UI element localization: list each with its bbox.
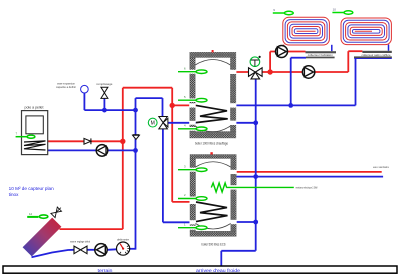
- wire red tank1 right to valve: [231, 71, 249, 73]
- svg-text:12: 12: [29, 212, 33, 216]
- tank2 heat exchanger coil: [196, 202, 228, 222]
- actuator T circle: [250, 57, 260, 67]
- sensor tank1 mid: [178, 98, 207, 102]
- svg-text:pole a pellet: pole a pellet: [25, 106, 44, 110]
- sensor tank2 top: [178, 168, 207, 172]
- stove heat exchanger coil: [24, 141, 46, 150]
- node small dot near T: [259, 56, 261, 58]
- tank2 wall port gaps: [190, 168, 237, 230]
- wire blue collector2 return down x=355.5: [355, 58, 357, 105]
- node blue junction remplissage: [102, 108, 107, 113]
- wire red hot water out y=171.9: [236, 171, 382, 173]
- node blue junction collectors return: [288, 103, 293, 108]
- wire red into tank1 left: [172, 104, 196, 106]
- floor heating spiral 2: [341, 18, 391, 45]
- pump solar: [95, 244, 107, 256]
- wire red top horizontal y=87.7: [123, 87, 172, 89]
- ground bar terrain: [3, 266, 397, 273]
- wire blue spiral1 stub: [331, 45, 333, 51]
- vase expansion circle: [81, 85, 89, 93]
- svg-text:debimetre: debimetre: [117, 238, 130, 242]
- svg-text:M: M: [151, 121, 155, 127]
- wire red riser to collector bar2: [347, 51, 349, 72]
- node blue junction stove return: [133, 148, 138, 153]
- wire red pump A feed y=51.5: [270, 51, 305, 53]
- wire red riser to pump A: [269, 52, 271, 73]
- resistor electric heater green: [211, 183, 293, 192]
- wire blue M valve to tank1: [168, 122, 196, 124]
- collector bar coiffure: [354, 51, 392, 58]
- wire blue to tank2 bottom left y=222.3: [163, 221, 196, 223]
- tank1 bottom dome: [195, 126, 230, 132]
- node red junction tank1 feed: [170, 103, 175, 108]
- floor heating spiral 1: [283, 17, 330, 45]
- solar collector panel: [23, 218, 62, 257]
- svg-text:boiler 500 litres ECS: boiler 500 litres ECS: [202, 242, 227, 246]
- wire blue ECS vertical x=255.7: [255, 79, 257, 251]
- wire red vertical to tanks x=172.2: [171, 88, 173, 202]
- node blue junction tank2 bottom: [253, 220, 258, 225]
- valve remplissage: [101, 87, 108, 98]
- sensor stove: [16, 135, 35, 138]
- svg-text:arrivee d'eau froide: arrivee d'eau froide: [196, 268, 241, 273]
- wire red valve to pumps y=72: [262, 71, 348, 73]
- valve M mixing 3way: [159, 117, 168, 129]
- sensor tank1 bottom: [178, 127, 207, 131]
- node blue junction tank1 lower: [253, 120, 258, 125]
- svg-text:collecteur salon coiffure: collecteur salon coiffure: [362, 54, 392, 57]
- svg-text:remplissage: remplissage: [96, 82, 113, 86]
- pump A habitation: [276, 46, 288, 58]
- valve purge X on collector: [51, 207, 62, 218]
- sensor tank2 mid: [178, 197, 207, 201]
- actuator M circle: [148, 118, 157, 127]
- svg-text:capacite a definir: capacite a definir: [56, 85, 76, 89]
- svg-text:terrain: terrain: [98, 268, 114, 273]
- sensor collector: [27, 215, 48, 218]
- tank1 top dome: [195, 60, 230, 66]
- wire blue vase expansion stem: [83, 93, 85, 110]
- valve T 3way diverter: [249, 68, 263, 79]
- sensor tank2 bottom: [178, 226, 207, 230]
- wire blue bridge down to M valve: [162, 98, 164, 117]
- wire blue collector1 return down x=290.7: [290, 58, 292, 106]
- collector bar habitation: [306, 51, 337, 58]
- wire blue spiral2 stub: [388, 45, 390, 51]
- tank1 wall port gaps: [189, 70, 236, 131]
- wire blue network: [32, 45, 392, 267]
- check valve stove red: [84, 138, 91, 144]
- svg-text:collecteur habitation: collecteur habitation: [308, 54, 334, 57]
- tank2 vent tick: [210, 152, 212, 154]
- sensor 10: [332, 11, 352, 14]
- wire blue bridge y=98.1: [136, 97, 163, 99]
- tank2 bottom dome: [196, 224, 231, 230]
- sensor 9: [273, 11, 293, 14]
- svg-text:tinox: tinox: [9, 192, 19, 197]
- wire blue remplissage stem: [103, 98, 105, 110]
- svg-text:vase expansion: vase expansion: [57, 81, 75, 85]
- svg-text:10 M² de capteur plan: 10 M² de capteur plan: [9, 186, 54, 191]
- wire blue vase line y=110.1: [84, 109, 135, 111]
- boiler tank1 walls: [189, 50, 236, 138]
- svg-text:resistance electrique 2.5kW: resistance electrique 2.5kW: [296, 186, 318, 190]
- wire red collector to riser y=229.1: [60, 228, 123, 230]
- wire red vertical solar riser x=122.8: [48, 45, 382, 230]
- svg-text:vanne reglage debit: vanne reglage debit: [70, 240, 90, 244]
- wire red stove output y=141.3: [48, 140, 123, 142]
- node red junction pump A branch: [267, 69, 272, 74]
- wire blue tank2 right mid y=176.6: [236, 176, 383, 178]
- wire blue main vertical x=135.5: [135, 98, 137, 250]
- wire blue tank2 right bottom y=222: [231, 221, 256, 223]
- wire blue cold water bottom y=250.8: [221, 250, 255, 252]
- svg-text:boiler 1000 litres chauffage: boiler 1000 litres chauffage: [195, 141, 228, 145]
- node blue junction tank2 mid: [253, 174, 258, 179]
- svg-text:10: 10: [333, 7, 337, 11]
- wire blue M valve down x=162.9: [162, 129, 164, 222]
- svg-text:eau sanitaire: eau sanitaire: [373, 165, 389, 169]
- pellet stove box: [22, 111, 48, 155]
- wire red spiral1 stub: [283, 45, 285, 52]
- pump stove: [96, 145, 108, 157]
- wire blue tank1 right top return y=105.4: [231, 104, 356, 106]
- node blue junction vase line: [133, 108, 138, 113]
- tank1 heat exchanger coil: [196, 105, 228, 122]
- boiler tank2 walls: [190, 152, 237, 236]
- wire blue cold water drop to ground bar: [220, 251, 222, 266]
- tank2 top dome: [196, 162, 231, 167]
- pump B coiffure: [302, 66, 314, 78]
- node red junction stove/riser: [120, 139, 125, 144]
- wire red into tank2 left: [172, 201, 191, 203]
- wire blue tank1 right lower y=122.8: [231, 122, 256, 124]
- check valve blue vertical: [133, 135, 140, 140]
- wire blue solar cold from collector: [32, 250, 75, 257]
- tank1 vent tick: [212, 50, 214, 52]
- wire blue stove return y=150.4: [48, 149, 136, 151]
- gauge debimetre: [117, 242, 130, 255]
- sensor tank1 top: [178, 70, 207, 74]
- valve reglage debit: [74, 246, 87, 254]
